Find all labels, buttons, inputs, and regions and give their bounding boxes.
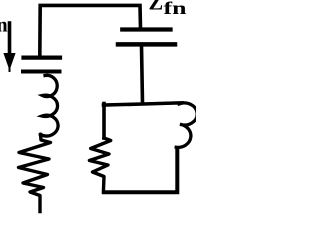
svg-text:Z: Z (149, 0, 164, 15)
svg-text:fn: fn (164, 0, 187, 18)
svg-text:n: n (0, 15, 8, 37)
